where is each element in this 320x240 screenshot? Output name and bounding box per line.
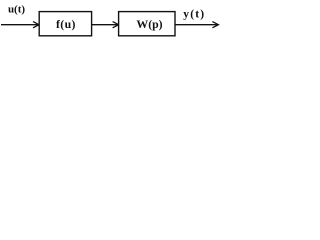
output arrowhead: [212, 22, 218, 28]
svg-text:W(p): W(p): [136, 17, 162, 31]
wire f(u) to W(p): [92, 24, 118, 26]
output wire: [175, 24, 218, 26]
input wire: [1, 24, 39, 26]
svg-text:f(u): f(u): [56, 17, 76, 31]
arrowhead at W(p) input: [113, 22, 119, 28]
input arrowhead: [33, 22, 39, 28]
block f(u): [39, 12, 91, 36]
block W(p): [119, 12, 175, 36]
svg-text:u(t): u(t): [8, 4, 25, 16]
svg-text:y(t): y(t): [183, 9, 205, 21]
